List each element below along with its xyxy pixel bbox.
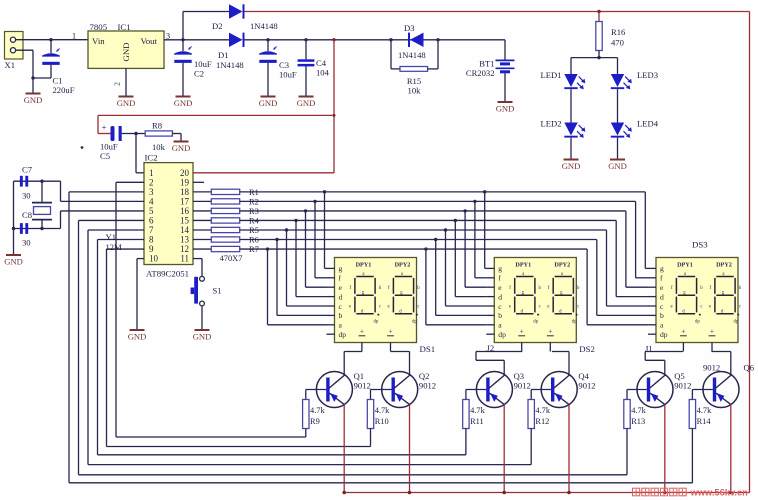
svg-text:1: 1 [72, 32, 76, 41]
svg-text:R12: R12 [535, 417, 549, 426]
svg-text:R2: R2 [249, 197, 259, 206]
svg-text:6: 6 [149, 215, 154, 225]
svg-text:GND: GND [172, 143, 191, 153]
svg-text:11: 11 [180, 254, 189, 264]
svg-text:DS3: DS3 [692, 240, 708, 250]
svg-text:20: 20 [180, 168, 190, 178]
svg-text:+: + [360, 327, 364, 336]
svg-text:d: d [339, 292, 343, 301]
svg-text:DPY1: DPY1 [677, 262, 693, 269]
svg-text:GND: GND [24, 95, 43, 105]
svg-text:DPY2: DPY2 [554, 262, 570, 269]
svg-text:C3: C3 [279, 60, 289, 70]
svg-text:g: g [498, 264, 502, 273]
svg-text:17: 17 [180, 196, 190, 206]
svg-text:c: c [577, 305, 579, 310]
svg-text:R11: R11 [470, 417, 484, 426]
svg-text:14: 14 [180, 225, 190, 235]
svg-text:R14: R14 [697, 417, 712, 426]
svg-text:X1: X1 [5, 60, 16, 70]
svg-text:10k: 10k [408, 86, 422, 96]
svg-text:4.7k: 4.7k [375, 406, 390, 415]
svg-text:CR2032: CR2032 [466, 68, 495, 78]
svg-text:Vin: Vin [92, 36, 105, 46]
svg-text:3: 3 [149, 187, 154, 197]
svg-text:dp: dp [412, 320, 417, 325]
svg-text:GND: GND [121, 42, 131, 61]
svg-text:dp: dp [374, 320, 379, 325]
svg-text:104: 104 [316, 68, 330, 78]
svg-text:R9: R9 [310, 417, 320, 426]
svg-text:+: + [388, 327, 392, 336]
svg-text:R3: R3 [249, 207, 259, 216]
svg-text:Q2: Q2 [419, 371, 430, 381]
svg-text:dp: dp [734, 320, 739, 325]
svg-text:b: b [498, 311, 502, 320]
svg-text:dp: dp [498, 330, 506, 339]
svg-text:10k: 10k [152, 142, 166, 152]
svg-text:10uF: 10uF [194, 59, 212, 69]
svg-text:LED1: LED1 [540, 70, 561, 80]
svg-text:19: 19 [180, 177, 190, 187]
svg-text:1N4148: 1N4148 [216, 60, 244, 70]
svg-text:e: e [509, 305, 511, 310]
svg-text:DS2: DS2 [579, 344, 595, 354]
svg-text:AT89C2051: AT89C2051 [146, 269, 189, 279]
svg-text:3: 3 [166, 32, 170, 41]
svg-text:c: c [700, 305, 702, 310]
svg-text:e: e [547, 305, 549, 310]
svg-text:b: b [660, 311, 664, 320]
svg-text:30: 30 [22, 238, 31, 248]
svg-text:15: 15 [180, 215, 190, 225]
svg-text:R8: R8 [152, 121, 162, 131]
svg-text:4.7k: 4.7k [535, 406, 550, 415]
svg-text:R1: R1 [249, 188, 259, 197]
svg-text:5: 5 [149, 206, 154, 216]
svg-text:R5: R5 [249, 226, 259, 235]
svg-text:+: + [681, 327, 685, 336]
svg-text:DPY1: DPY1 [515, 262, 531, 269]
svg-text:9: 9 [149, 244, 154, 254]
svg-text:GND: GND [562, 161, 581, 171]
svg-text:www.56kv.cn: www.56kv.cn [690, 488, 749, 498]
svg-text:220uF: 220uF [53, 85, 75, 95]
svg-text:c: c [739, 305, 741, 310]
svg-text:LED2: LED2 [540, 119, 561, 129]
svg-text:C2: C2 [194, 69, 204, 79]
svg-text:g: g [339, 264, 343, 273]
svg-text:R10: R10 [375, 417, 389, 426]
svg-text:2: 2 [149, 177, 154, 187]
svg-text:c: c [379, 305, 381, 310]
svg-text:10uF: 10uF [279, 70, 297, 80]
svg-text:1: 1 [149, 168, 154, 178]
svg-text:2: 2 [113, 82, 122, 86]
svg-text:1N4148: 1N4148 [250, 21, 278, 31]
svg-text:R6: R6 [249, 236, 259, 245]
svg-text:e: e [709, 305, 711, 310]
svg-text:4.7k: 4.7k [470, 406, 485, 415]
svg-text:IC1: IC1 [118, 22, 131, 32]
svg-text:9012: 9012 [703, 363, 720, 373]
svg-text:4.7k: 4.7k [310, 406, 325, 415]
svg-text:9012: 9012 [514, 381, 531, 391]
svg-text:GND: GND [117, 98, 136, 108]
svg-text:1N4148: 1N4148 [398, 50, 426, 60]
svg-text:R4: R4 [249, 216, 260, 225]
svg-text:GND: GND [174, 98, 193, 108]
svg-text:GND: GND [193, 332, 212, 342]
svg-text:Q6: Q6 [744, 363, 755, 373]
svg-text:Q3: Q3 [514, 371, 525, 381]
svg-text:d: d [660, 292, 664, 301]
svg-text:R16: R16 [611, 27, 626, 37]
svg-text:e: e [388, 305, 390, 310]
svg-text:d: d [498, 292, 502, 301]
svg-text:9012: 9012 [419, 381, 436, 391]
svg-text:e: e [349, 305, 351, 310]
svg-text:R13: R13 [631, 417, 645, 426]
svg-text:D1: D1 [218, 50, 229, 60]
svg-text:+: + [102, 122, 107, 132]
svg-text:Y1: Y1 [106, 232, 117, 242]
svg-text:GND: GND [496, 104, 515, 114]
svg-text:Q1: Q1 [354, 371, 365, 381]
svg-text:e: e [671, 305, 673, 310]
svg-text:DPY2: DPY2 [395, 262, 411, 269]
svg-text:S1: S1 [213, 286, 222, 296]
svg-text:LED4: LED4 [637, 119, 659, 129]
svg-text:+: + [548, 327, 552, 336]
svg-text:Q5: Q5 [674, 371, 685, 381]
svg-text:dp: dp [572, 320, 577, 325]
svg-text:C4: C4 [316, 58, 327, 68]
svg-text:10uF: 10uF [100, 142, 118, 152]
svg-text:g: g [660, 264, 664, 273]
svg-text:GND: GND [297, 98, 316, 108]
svg-text:C7: C7 [22, 165, 33, 175]
svg-text:9012: 9012 [674, 381, 691, 391]
svg-text:dp: dp [533, 320, 538, 325]
svg-text:D3: D3 [404, 23, 415, 33]
svg-text:9012: 9012 [354, 381, 371, 391]
svg-text:dp: dp [339, 330, 347, 339]
svg-text:16: 16 [180, 206, 190, 216]
svg-text:18: 18 [180, 187, 190, 197]
svg-text:GND: GND [259, 98, 278, 108]
svg-text:+: + [520, 327, 524, 336]
svg-text:dp: dp [695, 320, 700, 325]
svg-text:GND: GND [608, 161, 627, 171]
svg-text:10: 10 [149, 254, 159, 264]
svg-text:4.7k: 4.7k [697, 406, 712, 415]
svg-text:GND: GND [4, 257, 23, 267]
svg-text:R15: R15 [407, 76, 421, 86]
svg-text:Vout: Vout [141, 36, 158, 46]
svg-text:+: + [710, 327, 714, 336]
svg-text:7805: 7805 [90, 22, 108, 32]
svg-text:470X7: 470X7 [220, 254, 243, 263]
svg-text:D2: D2 [212, 21, 223, 31]
svg-text:12: 12 [180, 244, 189, 254]
svg-text:DPY2: DPY2 [716, 262, 732, 269]
svg-text:DPY1: DPY1 [356, 262, 372, 269]
svg-text:LED3: LED3 [637, 70, 658, 80]
svg-text:IC2: IC2 [145, 153, 158, 163]
svg-text:c: c [539, 305, 541, 310]
svg-text:470: 470 [611, 38, 624, 48]
svg-text:30: 30 [22, 191, 31, 201]
svg-text:12M: 12M [106, 242, 123, 252]
svg-text:4: 4 [149, 196, 154, 206]
svg-text:C8: C8 [22, 210, 32, 220]
svg-text:R7: R7 [249, 245, 259, 254]
svg-text:GND: GND [128, 332, 147, 342]
svg-text:7: 7 [149, 225, 154, 235]
svg-text:b: b [339, 311, 343, 320]
svg-text:C5: C5 [100, 151, 110, 161]
svg-text:BT1: BT1 [479, 59, 494, 69]
svg-text:9012: 9012 [578, 381, 595, 391]
svg-text:dp: dp [660, 330, 668, 339]
svg-text:DS1: DS1 [420, 344, 436, 354]
svg-text:C1: C1 [53, 76, 63, 86]
svg-text:Q4: Q4 [578, 371, 589, 381]
svg-text:13: 13 [180, 235, 190, 245]
svg-text:4.7k: 4.7k [631, 406, 646, 415]
svg-text:c: c [417, 305, 419, 310]
svg-text:8: 8 [149, 235, 154, 245]
